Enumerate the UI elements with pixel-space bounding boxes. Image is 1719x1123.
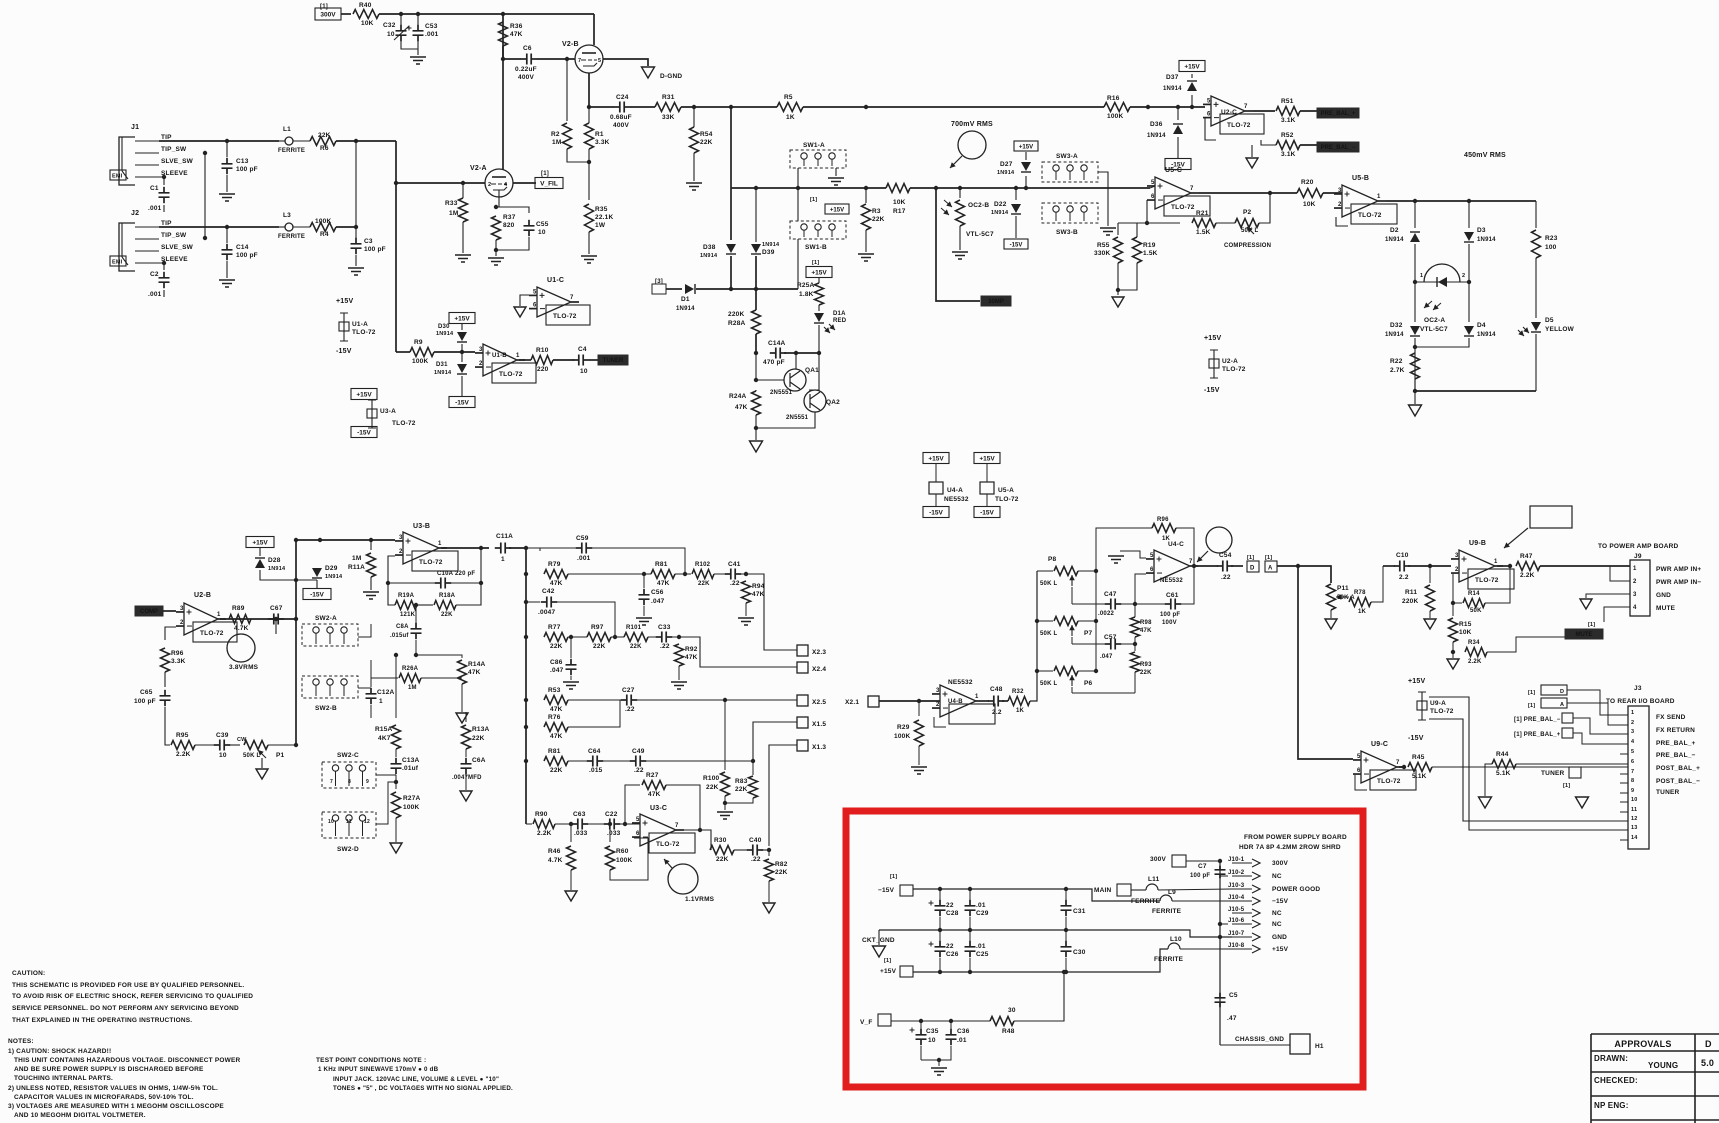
svg-text:X2.5: X2.5 <box>812 699 826 706</box>
svg-text:22.1K: 22.1K <box>595 214 613 221</box>
svg-text:TLO-72: TLO-72 <box>1475 577 1499 584</box>
svg-text:TEST POINT CONDITIONS NOTE: TEST POINT CONDITIONS NOTE : <box>316 1057 426 1064</box>
svg-text:C59: C59 <box>576 535 589 542</box>
svg-text:D29: D29 <box>325 565 338 572</box>
svg-text:U4-A: U4-A <box>947 487 963 494</box>
svg-text:SW2-A: SW2-A <box>315 615 337 622</box>
svg-text:2: 2 <box>399 549 403 555</box>
svg-text:J10-2: J10-2 <box>1228 870 1245 876</box>
svg-text:FERRITE: FERRITE <box>1152 908 1182 915</box>
svg-text:J10-1: J10-1 <box>1228 857 1245 863</box>
svg-text:R55: R55 <box>1097 242 1110 249</box>
svg-text:R17: R17 <box>893 208 906 215</box>
svg-text:C33: C33 <box>658 624 671 631</box>
svg-text:NE5532: NE5532 <box>1160 578 1183 584</box>
svg-text:7: 7 <box>1190 186 1194 192</box>
svg-text:R40: R40 <box>359 2 372 9</box>
svg-text:C49: C49 <box>632 748 645 755</box>
svg-text:-15V: -15V <box>336 348 352 355</box>
svg-text:C14: C14 <box>236 244 249 251</box>
svg-text:C10A: C10A <box>437 571 454 577</box>
svg-text:FX SEND: FX SEND <box>1656 714 1686 721</box>
svg-text:D3: D3 <box>1477 227 1486 234</box>
svg-text:10K: 10K <box>361 20 374 27</box>
svg-text:5: 5 <box>1151 180 1155 186</box>
svg-text:.0047: .0047 <box>538 609 555 616</box>
svg-text:22K: 22K <box>716 856 729 863</box>
svg-text:C25: C25 <box>976 951 989 958</box>
svg-text:D1A: D1A <box>833 311 846 317</box>
svg-text:.033: .033 <box>574 830 588 837</box>
svg-text:6: 6 <box>1631 759 1634 765</box>
svg-text:100 pF: 100 pF <box>364 246 386 253</box>
svg-text:X1.5: X1.5 <box>812 721 826 728</box>
svg-text:47K: 47K <box>735 404 748 411</box>
svg-text:.22: .22 <box>1221 574 1231 581</box>
svg-text:22K: 22K <box>872 216 885 223</box>
svg-text:22K: 22K <box>735 786 748 793</box>
svg-text:R96: R96 <box>1157 517 1169 523</box>
svg-text:10K: 10K <box>1303 201 1316 208</box>
svg-text:+15V: +15V <box>1272 946 1289 953</box>
svg-text:THIS SCHEMATIC IS PROVIDED: THIS SCHEMATIC IS PROVIDED FOR USE BY QU… <box>12 982 244 989</box>
svg-text:22: 22 <box>946 902 954 909</box>
svg-text:FERRITE: FERRITE <box>278 148 305 154</box>
svg-text:1 KHz INPUT SINEWAVE 170mV: 1 KHz INPUT SINEWAVE 170mV ● 0 dB <box>318 1066 439 1073</box>
svg-text:CHASSIS_GND: CHASSIS_GND <box>1235 1036 1284 1043</box>
svg-text:1) CAUTION: SHOCK HAZARD!!: 1) CAUTION: SHOCK HAZARD!! <box>8 1048 111 1055</box>
svg-text:6: 6 <box>636 831 640 837</box>
svg-text:7: 7 <box>1396 760 1400 766</box>
svg-text:X2.3: X2.3 <box>812 649 826 656</box>
svg-text:P8: P8 <box>1048 556 1057 563</box>
svg-text:22K: 22K <box>550 767 563 774</box>
svg-text:FROM POWER SUPPLY BOARD: FROM POWER SUPPLY BOARD <box>1244 834 1347 841</box>
svg-text:47K: 47K <box>550 580 563 587</box>
svg-text:1N914: 1N914 <box>762 242 780 248</box>
svg-text:U1-A: U1-A <box>352 321 368 328</box>
svg-text:R77: R77 <box>548 624 561 631</box>
svg-text:TIP_SW: TIP_SW <box>161 232 187 239</box>
svg-text:OC2-B: OC2-B <box>968 202 989 209</box>
svg-text:+15V: +15V <box>979 455 995 462</box>
svg-text:1: 1 <box>975 694 979 700</box>
svg-text:2) UNLESS NOTED, RESISTOR: 2) UNLESS NOTED, RESISTOR VALUES IN OHMS… <box>8 1085 218 1092</box>
svg-text:V_F: V_F <box>860 1019 873 1026</box>
svg-text:C64: C64 <box>588 748 601 755</box>
svg-text:C1: C1 <box>150 185 159 192</box>
svg-text:D31: D31 <box>436 362 448 368</box>
svg-text:TO POWER AMP BOARD: TO POWER AMP BOARD <box>1598 543 1679 550</box>
svg-text:22K: 22K <box>441 612 453 618</box>
svg-text:C12A: C12A <box>377 689 395 696</box>
svg-text:R15A: R15A <box>375 726 393 733</box>
svg-text:[1]: [1] <box>884 958 891 964</box>
svg-text:[1]: [1] <box>1563 783 1570 789</box>
svg-text:R13A: R13A <box>472 726 490 733</box>
svg-text:R24A: R24A <box>729 393 747 400</box>
svg-text:33K: 33K <box>662 114 675 121</box>
svg-text:8: 8 <box>348 779 351 785</box>
svg-text:MUTE: MUTE <box>1576 632 1593 638</box>
svg-text:L11: L11 <box>1148 876 1160 883</box>
svg-text:C47: C47 <box>1104 591 1117 598</box>
svg-text:J2: J2 <box>131 210 139 217</box>
svg-text:5.1K: 5.1K <box>1412 773 1427 780</box>
svg-text:.047: .047 <box>550 667 564 674</box>
svg-text:C65: C65 <box>140 689 153 696</box>
svg-text:TO REAR I/O BOARD: TO REAR I/O BOARD <box>1606 698 1675 705</box>
svg-text:2: 2 <box>1455 567 1459 573</box>
svg-text:.22: .22 <box>625 706 635 713</box>
svg-text:.22: .22 <box>634 767 644 774</box>
svg-text:10: 10 <box>580 368 588 375</box>
svg-text:L9: L9 <box>1168 889 1176 896</box>
svg-text:D39: D39 <box>762 249 775 256</box>
svg-text:EMI: EMI <box>112 174 123 180</box>
svg-text:C56: C56 <box>651 589 664 596</box>
svg-text:TO AVOID RISK OF ELECTRIC: TO AVOID RISK OF ELECTRIC SHOCK, REFER S… <box>12 993 253 1000</box>
svg-text:L1: L1 <box>283 126 291 133</box>
svg-text:C7: C7 <box>1198 863 1207 870</box>
svg-text:U3-A: U3-A <box>380 408 396 415</box>
svg-text:C31: C31 <box>1073 908 1086 915</box>
svg-text:PRE_BAL_+: PRE_BAL_+ <box>1321 111 1356 117</box>
svg-text:100K: 100K <box>616 857 632 864</box>
svg-text:100: 100 <box>1545 244 1557 251</box>
svg-text:POST_BAL_−: POST_BAL_− <box>1656 778 1700 785</box>
svg-text:1: 1 <box>1377 194 1381 200</box>
svg-text:50K L: 50K L <box>1040 681 1057 687</box>
svg-text:2: 2 <box>1631 720 1634 726</box>
svg-text:7: 7 <box>570 295 574 301</box>
svg-text:7: 7 <box>1189 559 1193 565</box>
svg-text:2: 2 <box>488 182 491 188</box>
svg-text:5.0: 5.0 <box>1701 1058 1714 1068</box>
svg-text:R46: R46 <box>548 848 561 855</box>
svg-text:22K: 22K <box>775 869 788 876</box>
svg-text:1M: 1M <box>408 685 417 691</box>
svg-text:U5-A: U5-A <box>998 487 1014 494</box>
svg-text:.0047MFD: .0047MFD <box>452 775 482 781</box>
svg-text:2.2K: 2.2K <box>1520 572 1535 579</box>
svg-text:R11A: R11A <box>348 564 365 571</box>
svg-text:D38: D38 <box>703 244 716 251</box>
svg-text:R27A: R27A <box>403 795 421 802</box>
svg-text:R83: R83 <box>735 778 748 785</box>
svg-text:FERRITE: FERRITE <box>278 234 305 240</box>
svg-text:NC: NC <box>1272 873 1282 880</box>
svg-text:1N914: 1N914 <box>268 566 286 572</box>
svg-text:C63: C63 <box>573 811 586 818</box>
svg-text:[1]: [1] <box>1265 555 1272 561</box>
svg-text:APPROVALS: APPROVALS <box>1614 1039 1671 1049</box>
svg-text:J10-5: J10-5 <box>1228 907 1245 913</box>
svg-text:SW2-D: SW2-D <box>337 846 359 853</box>
svg-text:8: 8 <box>1631 778 1634 784</box>
svg-text:NC: NC <box>1272 921 1282 928</box>
svg-text:RED: RED <box>833 318 847 324</box>
svg-text:0.22uF: 0.22uF <box>515 66 537 73</box>
svg-text:+15V: +15V <box>356 391 372 398</box>
svg-text:GND: GND <box>1656 592 1671 599</box>
svg-text:1: 1 <box>379 698 383 705</box>
svg-text:5: 5 <box>533 289 537 295</box>
svg-text:47K: 47K <box>468 669 481 676</box>
svg-text:AND 10 MEGOHM DIGITAL VOLT: AND 10 MEGOHM DIGITAL VOLTMETER. <box>14 1112 146 1119</box>
svg-text:INPUT JACK. 120VAC LINE,: INPUT JACK. 120VAC LINE, VOLUME & LEVEL … <box>333 1076 499 1083</box>
svg-text:100 pF: 100 pF <box>1190 873 1210 879</box>
svg-text:5: 5 <box>1357 754 1361 760</box>
svg-text:NE5532: NE5532 <box>948 679 973 686</box>
svg-text:U2-C: U2-C <box>1221 109 1237 116</box>
svg-text:A: A <box>1560 702 1564 708</box>
svg-text:1: 1 <box>438 541 442 547</box>
svg-text:R93: R93 <box>1140 662 1152 668</box>
svg-text:.015: .015 <box>589 767 603 774</box>
svg-text:5: 5 <box>636 817 640 823</box>
svg-text:1N914: 1N914 <box>1385 332 1404 338</box>
svg-text:-15V: -15V <box>1408 735 1424 742</box>
svg-text:7: 7 <box>675 823 679 829</box>
svg-text:300V: 300V <box>320 11 336 18</box>
svg-text:THIS UNIT CONTAINS HAZARDOU: THIS UNIT CONTAINS HAZARDOUS VOLTAGE. DI… <box>14 1057 240 1064</box>
svg-text:P1: P1 <box>276 752 285 759</box>
svg-text:1K: 1K <box>1162 536 1171 542</box>
svg-text:1: 1 <box>217 612 221 618</box>
svg-text:V2-B: V2-B <box>562 41 579 48</box>
svg-text:J10-7: J10-7 <box>1228 931 1245 937</box>
svg-text:+15V: +15V <box>252 539 268 546</box>
svg-text:C22: C22 <box>605 811 618 818</box>
svg-text:R30: R30 <box>714 837 727 844</box>
svg-text:R101: R101 <box>626 625 642 631</box>
svg-text:L3: L3 <box>283 212 291 219</box>
svg-text:22K: 22K <box>630 644 642 650</box>
svg-text:D: D <box>1560 689 1564 695</box>
svg-text:P11: P11 <box>1337 585 1349 592</box>
svg-text:R97: R97 <box>591 624 604 631</box>
svg-text:5.1K: 5.1K <box>1496 770 1511 777</box>
svg-text:C35: C35 <box>926 1028 939 1035</box>
svg-text:R60: R60 <box>616 848 629 855</box>
svg-text:HDR 7A 8P 4.2MM 2ROW SHRD: HDR 7A 8P 4.2MM 2ROW SHRD <box>1239 844 1341 851</box>
svg-text:1N914: 1N914 <box>676 306 695 312</box>
svg-text:SW2-B: SW2-B <box>315 705 337 712</box>
svg-text:C5: C5 <box>1229 992 1238 999</box>
svg-text:DRAWN:: DRAWN: <box>1594 1054 1628 1063</box>
svg-text:-15V: -15V <box>980 509 994 516</box>
svg-text:R26A: R26A <box>402 666 419 672</box>
svg-text:[1] PRE_BAL_−: [1] PRE_BAL_− <box>1514 717 1561 723</box>
svg-text:7: 7 <box>330 779 333 785</box>
svg-text:U1-C: U1-C <box>547 277 564 284</box>
svg-text:R14: R14 <box>1468 591 1480 597</box>
svg-text:R33: R33 <box>445 200 458 207</box>
svg-text:10: 10 <box>387 31 395 38</box>
svg-text:5: 5 <box>598 58 601 64</box>
svg-text:U2-A: U2-A <box>1222 358 1238 365</box>
svg-text:450mV RMS: 450mV RMS <box>1464 152 1506 159</box>
svg-text:3: 3 <box>399 535 403 541</box>
svg-text:5: 5 <box>1150 553 1154 559</box>
svg-text:R48: R48 <box>1002 1028 1015 1035</box>
svg-text:4.7K: 4.7K <box>548 857 563 864</box>
svg-text:FERRITE: FERRITE <box>1154 956 1184 963</box>
svg-text:50K L: 50K L <box>1040 631 1057 637</box>
svg-text:2N5551: 2N5551 <box>770 390 793 396</box>
svg-text:C54: C54 <box>1219 552 1232 559</box>
svg-text:R36: R36 <box>510 23 523 30</box>
svg-text:R31: R31 <box>662 94 675 101</box>
svg-text:.001: .001 <box>148 291 162 298</box>
svg-text:C41: C41 <box>728 561 741 568</box>
svg-text:47K: 47K <box>1140 628 1152 634</box>
svg-text:TLO-72: TLO-72 <box>656 841 680 848</box>
svg-text:R53: R53 <box>548 687 561 694</box>
svg-text:14: 14 <box>1631 835 1638 841</box>
svg-text:1.8K: 1.8K <box>799 291 814 298</box>
svg-text:100 pF: 100 pF <box>236 166 258 173</box>
svg-text:TLO-72: TLO-72 <box>499 371 523 378</box>
svg-text:3: 3 <box>180 606 184 612</box>
svg-text:TLO-72: TLO-72 <box>553 313 577 320</box>
svg-text:R3: R3 <box>872 208 881 215</box>
svg-text:121K: 121K <box>400 612 416 618</box>
svg-text:D2: D2 <box>1390 227 1399 234</box>
svg-text:100K: 100K <box>412 358 428 365</box>
svg-text:YOUNG: YOUNG <box>1648 1061 1678 1070</box>
svg-text:1N914: 1N914 <box>1385 237 1404 243</box>
svg-text:R15: R15 <box>1459 621 1472 628</box>
svg-text:3: 3 <box>1455 553 1459 559</box>
svg-text:U3-C: U3-C <box>650 805 667 812</box>
svg-text:R4: R4 <box>320 231 329 238</box>
svg-text:2.2K: 2.2K <box>176 751 191 758</box>
svg-text:.01uf: .01uf <box>402 765 419 772</box>
svg-text:1.1VRMS: 1.1VRMS <box>685 896 715 903</box>
svg-text:R9: R9 <box>414 339 423 346</box>
svg-text:50K: 50K <box>1470 608 1482 614</box>
svg-text:9: 9 <box>1631 788 1634 794</box>
svg-text:VTL-5C7: VTL-5C7 <box>1420 326 1448 333</box>
svg-text:3.1K: 3.1K <box>1281 117 1296 124</box>
svg-text:22K: 22K <box>593 643 606 650</box>
svg-text:D32: D32 <box>1390 322 1403 329</box>
svg-text:FERRITE: FERRITE <box>1131 898 1161 905</box>
svg-text:R37: R37 <box>503 214 516 221</box>
svg-text:22K: 22K <box>698 581 710 587</box>
svg-text:TUNER: TUNER <box>1541 770 1564 777</box>
svg-text:C26: C26 <box>946 951 959 958</box>
svg-text:J10-6: J10-6 <box>1228 918 1245 924</box>
svg-text:1N914: 1N914 <box>1147 133 1166 139</box>
svg-text:1N914: 1N914 <box>436 331 454 337</box>
svg-text:+15V: +15V <box>830 207 844 213</box>
svg-text:[1]: [1] <box>890 874 897 880</box>
svg-text:-15V: -15V <box>357 429 371 436</box>
svg-text:MAIN: MAIN <box>1094 887 1112 894</box>
svg-text:47K: 47K <box>510 31 523 38</box>
svg-text:R19: R19 <box>1143 242 1156 249</box>
svg-text:47K: 47K <box>550 706 563 713</box>
svg-text:[1]: [1] <box>810 197 817 203</box>
svg-text:1N914: 1N914 <box>325 574 343 580</box>
svg-text:100K: 100K <box>403 804 419 811</box>
svg-text:1K: 1K <box>1358 609 1367 615</box>
svg-text:TUNER: TUNER <box>1656 789 1679 796</box>
svg-text:C39: C39 <box>216 732 229 739</box>
svg-text:[1]: [1] <box>541 171 549 177</box>
svg-text:10: 10 <box>928 1037 936 1044</box>
svg-text:D1: D1 <box>681 296 690 303</box>
svg-text:2: 2 <box>1338 202 1342 208</box>
svg-text:R51: R51 <box>1281 98 1294 105</box>
svg-text:12: 12 <box>1631 816 1638 822</box>
svg-text:C11A: C11A <box>496 533 513 540</box>
svg-text:1: 1 <box>1420 273 1423 279</box>
svg-text:C3: C3 <box>364 238 373 245</box>
svg-text:.001: .001 <box>425 31 439 38</box>
svg-text:R45: R45 <box>1412 754 1425 761</box>
svg-text:D27: D27 <box>1000 161 1013 168</box>
svg-text:6: 6 <box>1150 567 1154 573</box>
svg-text:47K: 47K <box>657 580 670 587</box>
svg-text:R16: R16 <box>1107 95 1120 102</box>
svg-text:PRE_BAL_−: PRE_BAL_− <box>1656 752 1696 759</box>
svg-text:.01: .01 <box>976 943 986 950</box>
svg-text:R81: R81 <box>655 561 668 568</box>
svg-text:7: 7 <box>578 58 581 64</box>
svg-text:C6: C6 <box>523 45 532 52</box>
svg-text:R94: R94 <box>752 583 765 590</box>
svg-text:U2-B: U2-B <box>194 592 211 599</box>
svg-text:R98: R98 <box>1140 620 1152 626</box>
svg-text:SLVE_SW: SLVE_SW <box>161 158 194 165</box>
svg-text:300V: 300V <box>1150 856 1166 863</box>
svg-text:TLO-72: TLO-72 <box>200 630 224 637</box>
svg-text:SW1-B: SW1-B <box>805 244 827 251</box>
svg-text:.22: .22 <box>751 856 761 863</box>
svg-text:R10: R10 <box>536 347 549 354</box>
svg-text:R90: R90 <box>535 811 548 818</box>
svg-text:V_FIL: V_FIL <box>540 180 558 187</box>
svg-text:.0022: .0022 <box>1098 611 1114 617</box>
svg-text:R96: R96 <box>171 650 184 657</box>
svg-text:1N914: 1N914 <box>1163 86 1182 92</box>
svg-text:C61: C61 <box>1166 592 1179 599</box>
svg-text:10: 10 <box>1631 797 1638 803</box>
svg-text:11: 11 <box>346 819 352 825</box>
svg-text:COMP: COMP <box>140 609 158 615</box>
svg-text:2.2K: 2.2K <box>1468 659 1482 665</box>
svg-text:50K L: 50K L <box>243 753 260 759</box>
svg-text:3: 3 <box>936 688 940 694</box>
svg-text:YELLOW: YELLOW <box>1545 326 1575 333</box>
svg-text:R28A: R28A <box>728 320 746 327</box>
svg-text:C24: C24 <box>616 94 629 101</box>
svg-text:R54: R54 <box>700 131 713 138</box>
svg-text:D-GND: D-GND <box>660 73 682 80</box>
svg-text:22K: 22K <box>472 735 485 742</box>
svg-text:−15V: −15V <box>878 887 895 894</box>
svg-text:3: 3 <box>1633 592 1637 598</box>
svg-text:-15V: -15V <box>310 591 324 598</box>
svg-text:1N914: 1N914 <box>997 170 1015 176</box>
svg-text:6: 6 <box>1207 112 1211 118</box>
svg-text:[1]: [1] <box>1528 690 1535 696</box>
svg-text:TONES ● "5" , DC VOLTAGES: TONES ● "5" , DC VOLTAGES WITH NO SIGNAL… <box>333 1085 513 1092</box>
